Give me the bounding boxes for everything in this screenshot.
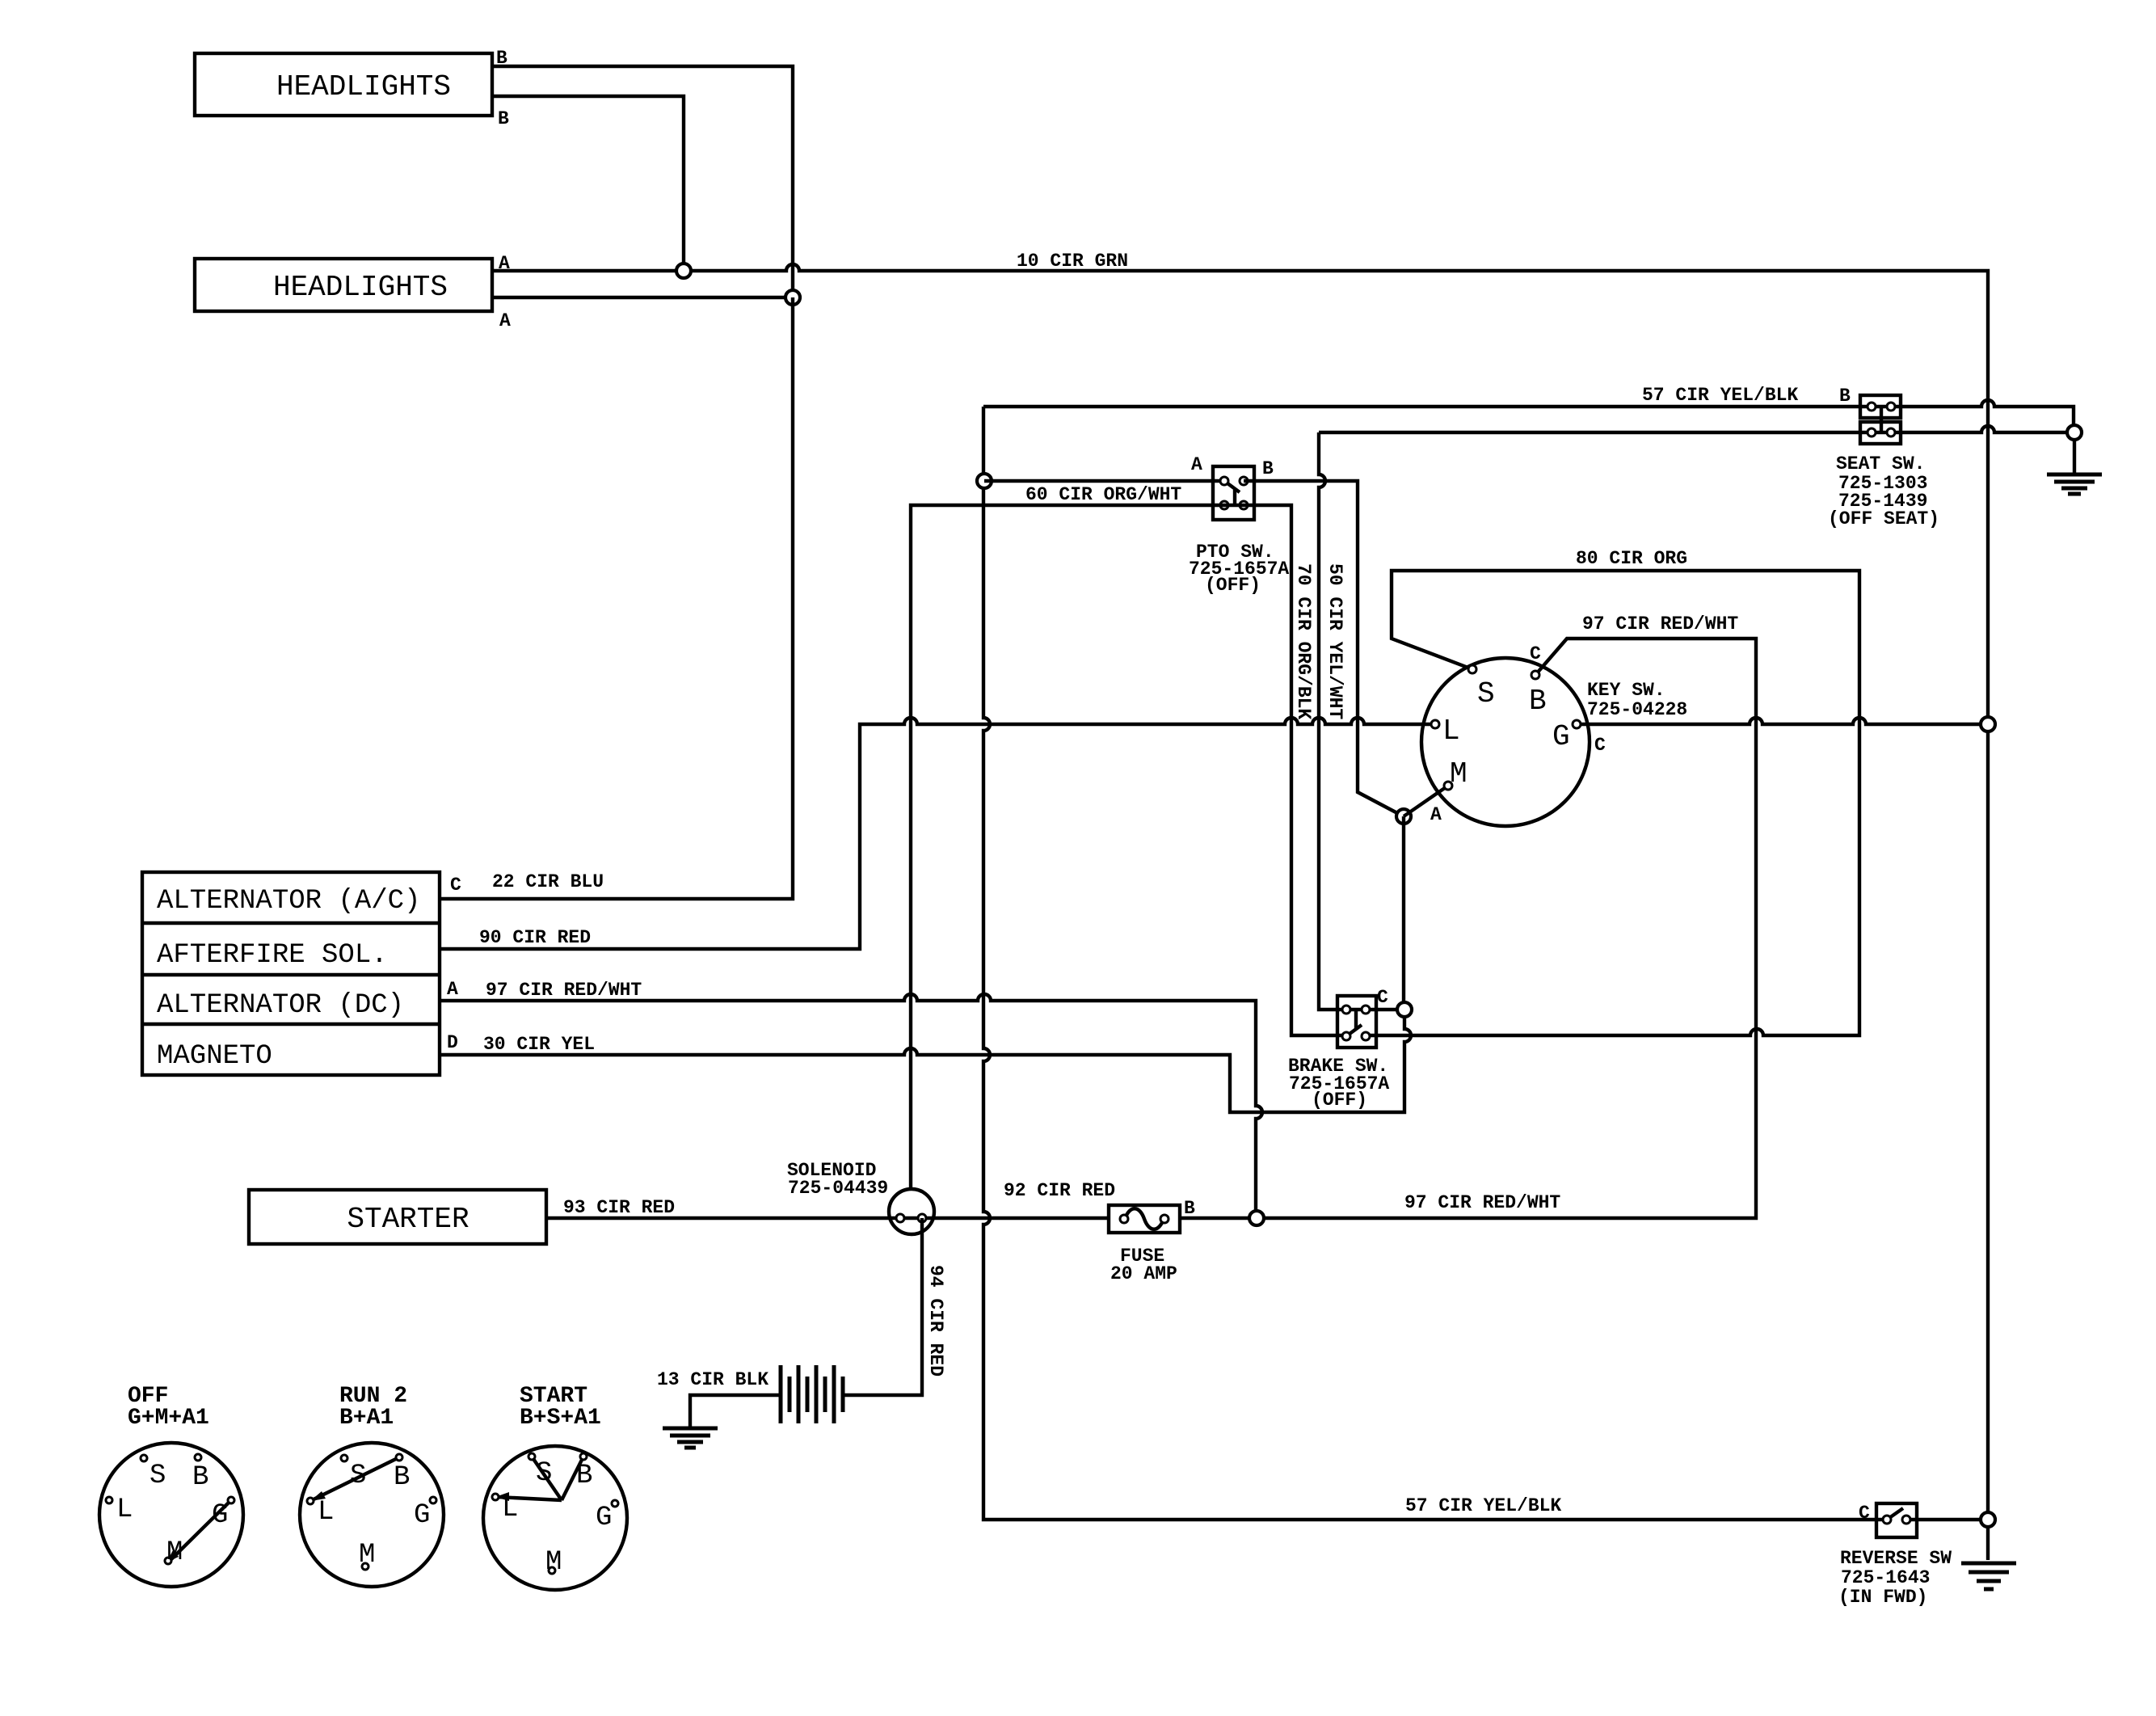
svg-text:REVERSE SW: REVERSE SW bbox=[1840, 1548, 1952, 1569]
svg-text:L: L bbox=[1442, 715, 1460, 748]
svg-text:30 CIR YEL: 30 CIR YEL bbox=[483, 1034, 595, 1055]
svg-text:SEAT SW.: SEAT SW. bbox=[1836, 453, 1925, 474]
svg-text:B: B bbox=[1262, 458, 1274, 479]
alternator stack divider 1 bbox=[142, 921, 440, 925]
wire key A junction down to brake C junction bbox=[1402, 816, 1405, 1010]
solenoid contact right bbox=[918, 1214, 926, 1222]
PTO switch lever bbox=[1224, 481, 1240, 492]
key position OFF lever arrowhead bbox=[166, 1550, 179, 1562]
OFF contact L bbox=[106, 1497, 112, 1503]
ground (seat switch) bbox=[2047, 474, 2102, 494]
svg-text:725-04228: 725-04228 bbox=[1587, 699, 1687, 720]
seat switch contact pole1 right bbox=[1887, 403, 1895, 411]
alternator stack divider 2 bbox=[142, 973, 440, 976]
key position START dial circle bbox=[483, 1446, 627, 1590]
svg-text:S: S bbox=[536, 1458, 552, 1489]
alternator stack outer box bbox=[142, 872, 440, 1075]
wire 93 CIR RED starter to solenoid and through to fuse bbox=[546, 1216, 1109, 1220]
svg-text:A: A bbox=[499, 310, 511, 331]
START contact L bbox=[492, 1494, 499, 1500]
junction B-bottom meets A wire bbox=[676, 264, 691, 278]
svg-text:G+M+A1: G+M+A1 bbox=[128, 1406, 209, 1431]
PTO contact bottom-left bbox=[1220, 501, 1228, 509]
svg-text:S: S bbox=[149, 1461, 166, 1491]
junction brake C bbox=[1397, 1002, 1412, 1017]
brake switch lever bbox=[1346, 1025, 1362, 1036]
RUN2 contact L bbox=[307, 1498, 314, 1504]
svg-text:B: B bbox=[1184, 1198, 1195, 1219]
OFF contact B bbox=[195, 1454, 201, 1461]
key contact M bbox=[1444, 782, 1452, 790]
ground (reverse switch) bbox=[1961, 1563, 2016, 1589]
ground (battery) bbox=[663, 1428, 718, 1448]
key contact G bbox=[1573, 720, 1581, 728]
svg-text:10 CIR GRN: 10 CIR GRN bbox=[1017, 251, 1128, 272]
OFF contact S bbox=[141, 1455, 147, 1461]
svg-text:94 CIR RED: 94 CIR RED bbox=[925, 1265, 946, 1377]
wire headlights2 A bottom to junction bbox=[492, 296, 793, 299]
wire 90 CIR RED afterfire sol. up and across to key switch L terminal bbox=[440, 718, 1431, 949]
wire 80 CIR ORG key S terminal loop to brake switch lower-right bbox=[1366, 571, 1859, 1035]
wire 13 CIR BLK battery to ground bbox=[690, 1395, 781, 1428]
svg-text:97 CIR RED/WHT: 97 CIR RED/WHT bbox=[1582, 613, 1738, 635]
svg-text:22 CIR BLU: 22 CIR BLU bbox=[492, 871, 604, 892]
svg-text:B+S+A1: B+S+A1 bbox=[520, 1406, 601, 1431]
wire 22 CIR BLU alternator AC to headlights vertical bbox=[440, 297, 793, 899]
svg-text:C: C bbox=[1530, 643, 1541, 664]
svg-text:HEADLIGHTS: HEADLIGHTS bbox=[276, 70, 451, 103]
key position RUN2 lever B-L bbox=[312, 1457, 399, 1500]
key position START lever pivot-L bbox=[497, 1497, 562, 1500]
START contact M bbox=[549, 1567, 555, 1574]
key switch U1 dial circle bbox=[1421, 658, 1590, 826]
svg-text:97 CIR RED/WHT: 97 CIR RED/WHT bbox=[486, 980, 642, 1001]
brake contact lower-right bbox=[1362, 1032, 1370, 1040]
key position OFF lever G-M bbox=[170, 1500, 231, 1561]
key contact L bbox=[1431, 720, 1439, 728]
svg-text:B: B bbox=[192, 1462, 208, 1493]
brake switch top row wire bbox=[1346, 1008, 1398, 1011]
PTO contact top-left bbox=[1220, 477, 1228, 485]
starter box bbox=[249, 1190, 546, 1244]
wire PTO lower-left to solenoid top (via left riser) bbox=[911, 505, 1224, 1189]
fuse contact left bbox=[1120, 1215, 1128, 1223]
seat switch contact pole2 left bbox=[1868, 428, 1876, 436]
junction fuse output / 97 riser bbox=[1249, 1211, 1264, 1225]
seat switch contact pole2 right bbox=[1887, 428, 1895, 436]
svg-text:20 AMP: 20 AMP bbox=[1110, 1263, 1177, 1284]
brake switch box bbox=[1337, 996, 1376, 1048]
reverse contact left bbox=[1883, 1516, 1891, 1524]
key position START lever B-pivot bbox=[562, 1457, 583, 1500]
svg-text:57 CIR YEL/BLK: 57 CIR YEL/BLK bbox=[1642, 385, 1798, 406]
PTO contact bottom-right bbox=[1240, 501, 1248, 509]
svg-text:S: S bbox=[350, 1461, 366, 1491]
seat switch contact pole1 left bbox=[1868, 403, 1876, 411]
wire headlights1 pin B top to vertical drop bbox=[492, 66, 793, 297]
headlights box 2 bbox=[195, 259, 492, 311]
wire riser from 57 second run down to brake switch upper-left bbox=[1319, 432, 1346, 1010]
headlights box 1 bbox=[195, 53, 492, 116]
fuse element squiggle bbox=[1125, 1208, 1164, 1229]
key switch A junction bbox=[1396, 809, 1411, 824]
svg-text:90 CIR RED: 90 CIR RED bbox=[479, 927, 591, 948]
alternator stack divider 3 bbox=[142, 1022, 440, 1026]
OFF contact G bbox=[228, 1497, 234, 1503]
svg-text:(OFF): (OFF) bbox=[1205, 575, 1261, 596]
svg-text:L: L bbox=[502, 1494, 518, 1524]
wire 30 CIR YEL magneto to brake switch C junction bbox=[440, 1010, 1411, 1112]
svg-text:13 CIR BLK: 13 CIR BLK bbox=[657, 1369, 768, 1390]
key position START lever S-pivot bbox=[532, 1457, 562, 1500]
svg-text:(OFF): (OFF) bbox=[1312, 1090, 1367, 1111]
svg-text:B+A1: B+A1 bbox=[339, 1406, 394, 1431]
key position OFF dial circle bbox=[99, 1443, 243, 1587]
svg-text:93 CIR RED: 93 CIR RED bbox=[563, 1197, 675, 1218]
svg-text:97 CIR RED/WHT: 97 CIR RED/WHT bbox=[1404, 1192, 1560, 1213]
svg-text:B: B bbox=[1839, 386, 1851, 407]
svg-text:C: C bbox=[1859, 1503, 1870, 1524]
PTO switch box bbox=[1213, 466, 1254, 520]
svg-text:M: M bbox=[166, 1537, 183, 1568]
START contact B bbox=[580, 1453, 587, 1460]
brake contact upper-right bbox=[1362, 1006, 1370, 1014]
RUN2 contact M bbox=[362, 1563, 368, 1570]
svg-text:G: G bbox=[596, 1503, 612, 1533]
brake contact lower-left bbox=[1342, 1032, 1350, 1040]
svg-text:M: M bbox=[1450, 757, 1468, 791]
svg-text:725-04439: 725-04439 bbox=[788, 1178, 888, 1199]
key contact S bbox=[1468, 665, 1476, 673]
key position START lever arrowhead bbox=[495, 1492, 509, 1501]
wire PTO B to 50 CIR YEL/WHT riser down to key A junction bbox=[1244, 481, 1400, 815]
reverse contact right bbox=[1902, 1516, 1910, 1524]
wire 57 CIR YEL/BLK bottom from reverse switch to right junction bbox=[1906, 1518, 1981, 1521]
RUN2 contact S bbox=[341, 1455, 347, 1461]
svg-text:S: S bbox=[1477, 677, 1495, 710]
svg-text:92 CIR RED: 92 CIR RED bbox=[1004, 1180, 1115, 1201]
svg-text:C: C bbox=[450, 875, 461, 896]
brake switch link bbox=[1354, 1010, 1358, 1028]
svg-text:B: B bbox=[394, 1462, 410, 1493]
wire 57 CIR YEL/BLK top run to seat switch and right-side ground corner bbox=[983, 400, 2074, 432]
svg-text:AFTERFIRE SOL.: AFTERFIRE SOL. bbox=[157, 940, 388, 971]
PTO switch link bbox=[1233, 490, 1236, 505]
junction seat switch output to ground bbox=[2067, 425, 2082, 440]
wire 97 CIR RED/WHT alternator DC to fuse junction bbox=[440, 994, 1262, 1216]
brake contact upper-left bbox=[1342, 1006, 1350, 1014]
svg-text:C: C bbox=[1594, 735, 1606, 756]
solenoid contact left bbox=[896, 1214, 904, 1222]
wire 57 CIR YEL/BLK second run from brake switch riser corner to seat switch lower pole bbox=[1319, 426, 2067, 432]
reverse switch box bbox=[1876, 1503, 1917, 1537]
junction 57 vertical meets 60 CIR ORG/WHT bbox=[977, 474, 992, 488]
svg-text:G: G bbox=[414, 1500, 430, 1531]
wire seat ground stub bbox=[2073, 440, 2076, 474]
svg-text:STARTER: STARTER bbox=[347, 1203, 469, 1236]
seat switch mechanical link bbox=[1880, 407, 1883, 432]
RUN2 contact G bbox=[430, 1497, 436, 1503]
wire 57 vertical drop to PTO junction and down to bottom 57 run bbox=[983, 407, 1887, 1520]
svg-text:ALTERNATOR (A/C): ALTERNATOR (A/C) bbox=[157, 886, 420, 917]
key position RUN2 dial circle bbox=[300, 1443, 444, 1587]
seat switch pole 1 box bbox=[1860, 395, 1901, 418]
wire 97 CIR RED/WHT key B terminal to fuse output run bbox=[1180, 639, 1756, 1218]
junction reverse output to right vertical bbox=[1981, 1512, 1995, 1527]
seat switch pole 2 box bbox=[1860, 422, 1901, 444]
svg-text:80 CIR ORG: 80 CIR ORG bbox=[1576, 548, 1687, 569]
svg-text:A: A bbox=[1191, 454, 1202, 475]
svg-text:HEADLIGHTS: HEADLIGHTS bbox=[273, 271, 448, 304]
svg-text:MAGNETO: MAGNETO bbox=[157, 1041, 272, 1072]
svg-text:(OFF SEAT): (OFF SEAT) bbox=[1828, 508, 1939, 529]
key switch lever A to M bbox=[1404, 786, 1448, 816]
svg-text:G: G bbox=[212, 1500, 228, 1531]
junction A-bottom meets B-top vertical bbox=[785, 290, 800, 305]
wire 10 CIR GRN from headlights2 A across top and down right side to reverse switch junction bbox=[492, 264, 1988, 1560]
PTO contact top-right bbox=[1240, 477, 1248, 485]
svg-text:50 CIR YEL/WHT: 50 CIR YEL/WHT bbox=[1324, 563, 1345, 719]
svg-text:B: B bbox=[576, 1461, 592, 1491]
key contact B bbox=[1531, 671, 1539, 679]
svg-text:725-1643: 725-1643 bbox=[1841, 1567, 1930, 1588]
fuse contact right bbox=[1160, 1215, 1169, 1223]
svg-text:A: A bbox=[447, 979, 458, 1000]
battery plates bbox=[781, 1365, 843, 1423]
svg-text:57 CIR YEL/BLK: 57 CIR YEL/BLK bbox=[1405, 1495, 1561, 1516]
wire 94 CIR RED solenoid to battery bbox=[843, 1218, 922, 1395]
wire key G terminal to right-side vertical bbox=[1577, 718, 1981, 724]
svg-text:A: A bbox=[1430, 804, 1442, 825]
svg-text:M: M bbox=[545, 1547, 562, 1578]
svg-text:(IN FWD): (IN FWD) bbox=[1838, 1587, 1927, 1608]
RUN2 contact B bbox=[396, 1454, 402, 1461]
svg-text:M: M bbox=[359, 1540, 375, 1571]
svg-text:L: L bbox=[318, 1497, 334, 1528]
svg-text:G: G bbox=[1552, 720, 1570, 753]
svg-text:KEY SW.: KEY SW. bbox=[1587, 680, 1665, 701]
svg-text:D: D bbox=[447, 1032, 458, 1053]
svg-text:B: B bbox=[498, 108, 509, 129]
OFF contact M bbox=[165, 1558, 171, 1564]
svg-text:C: C bbox=[1377, 987, 1388, 1008]
svg-text:60 CIR ORG/WHT: 60 CIR ORG/WHT bbox=[1025, 484, 1181, 505]
wire 70 CIR ORG/BLK PTO lower-right down to brake switch lower-left bbox=[1224, 505, 1346, 1035]
svg-text:B: B bbox=[1529, 685, 1547, 718]
solenoid body circle bbox=[889, 1189, 934, 1234]
junction G wire to right-side vertical bbox=[1981, 717, 1995, 732]
svg-text:70 CIR ORG/BLK: 70 CIR ORG/BLK bbox=[1293, 563, 1314, 719]
key position RUN2 lever arrowhead bbox=[310, 1491, 326, 1501]
wire headlights1 pin B bottom to junction on A wire bbox=[492, 96, 684, 271]
wire 60 CIR ORG/WHT junction to PTO switch A bbox=[984, 479, 1224, 483]
svg-text:L: L bbox=[116, 1495, 133, 1525]
fuse box bbox=[1109, 1205, 1180, 1233]
reverse switch lever bbox=[1887, 1508, 1903, 1520]
START contact S bbox=[528, 1453, 535, 1460]
START contact G bbox=[612, 1500, 618, 1507]
svg-text:ALTERNATOR (DC): ALTERNATOR (DC) bbox=[157, 990, 404, 1021]
